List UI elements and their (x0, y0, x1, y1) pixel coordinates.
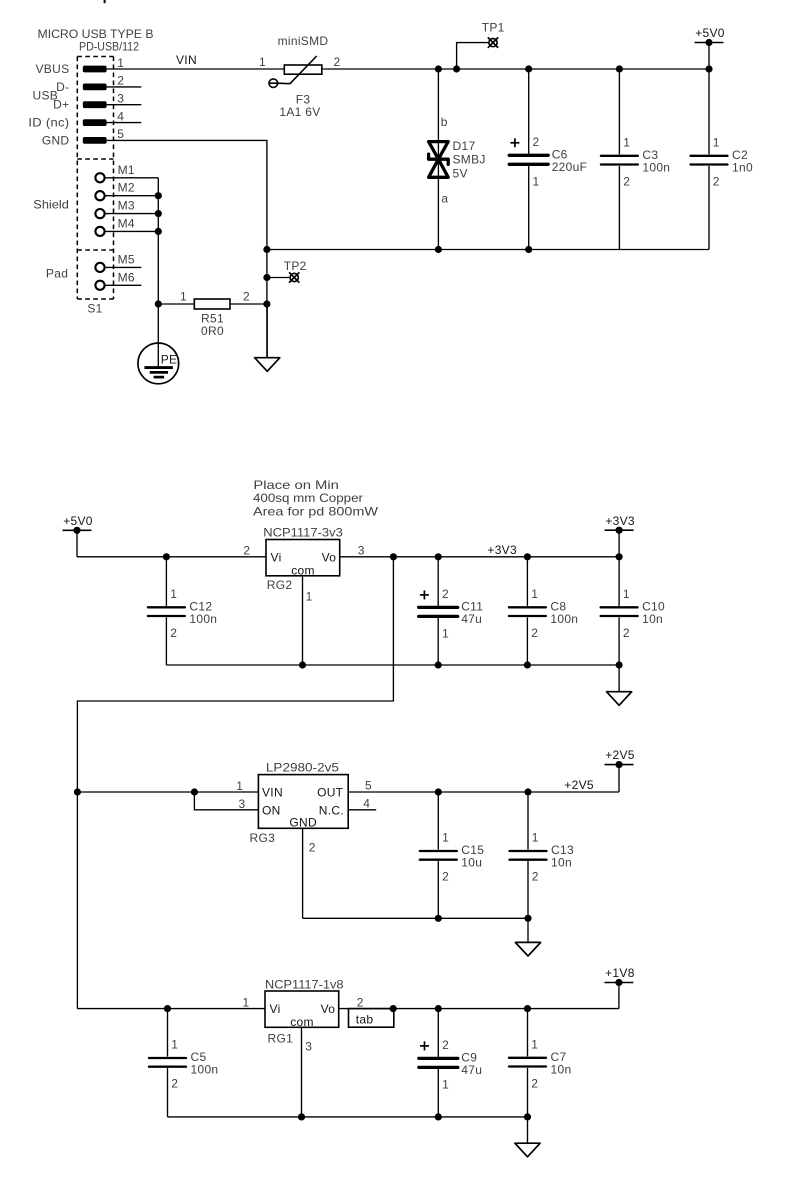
svg-text:1: 1 (170, 587, 177, 601)
earth ground PE symbol (138, 343, 179, 384)
capacitor C9 plates (419, 1057, 458, 1060)
svg-text:1: 1 (442, 1077, 449, 1091)
junction shield net at M4 (155, 228, 162, 235)
capacitor C6 top pin wire (528, 69, 530, 154)
ground symbol 1V8 section ground triangle (515, 1143, 540, 1157)
svg-text:+5V0: +5V0 (63, 514, 93, 528)
svg-text:2: 2 (533, 135, 540, 149)
wire M3 to shield net (105, 213, 159, 215)
power symbol +5V0 bar (695, 42, 724, 44)
fuse F3 trip indicator circle (269, 79, 278, 88)
capacitor C12 plates (148, 606, 185, 608)
svg-text:a: a (441, 192, 448, 206)
wire RG3 ON pin (194, 792, 258, 810)
junction +5V0 rail at C6 (525, 65, 532, 72)
wire M1 to shield net (105, 177, 159, 179)
junction +3V3 net at C8 (524, 553, 531, 560)
svg-text:PD-USB/112: PD-USB/112 (79, 40, 139, 54)
wire TP1 to +5V0 rail (457, 43, 489, 69)
svg-text:3: 3 (117, 92, 124, 106)
note text Place on Min 400sq mm Copper Area for pd 800mW (253, 478, 379, 518)
svg-text:1: 1 (713, 136, 720, 150)
junction ground rail at RG2 com (299, 661, 306, 668)
connector S1 mounting pin M5 circle (95, 263, 104, 272)
junction +1V8 net at C9 (435, 1005, 442, 1012)
svg-text:M4: M4 (118, 216, 135, 230)
svg-text:1: 1 (117, 56, 124, 70)
svg-text:2: 2 (531, 626, 538, 640)
svg-text:100n: 100n (642, 161, 670, 175)
power symbol +5V0 stem wire (76, 530, 78, 557)
junction +3V3 net at feed tap (390, 553, 397, 560)
capacitor C11 top pin wire (437, 557, 439, 606)
diode D17 bidirectional TVS symbol (429, 142, 449, 178)
regulator RG1 body (265, 991, 339, 1027)
junction RG1 input at C5 (164, 1005, 171, 1012)
ground symbol 1V8 section ground stem wire (527, 1117, 529, 1143)
svg-text:M2: M2 (118, 181, 135, 195)
junction GND net at ground rail (263, 246, 270, 253)
power symbol +1V8 bar (604, 982, 633, 984)
svg-text:D-: D- (56, 80, 69, 94)
svg-text:10n: 10n (642, 612, 663, 626)
power symbol +3V3 junction dot (616, 527, 623, 534)
power symbol +5V0 stem wire (708, 43, 710, 70)
svg-text:GND: GND (289, 815, 317, 829)
junction RG3 VIN at ON tap (191, 788, 198, 795)
svg-text:+5V0: +5V0 (695, 26, 725, 40)
svg-text:1A1 6V: 1A1 6V (279, 105, 320, 119)
ground symbol 3V3 section ground stem wire (618, 665, 620, 692)
svg-text:1: 1 (533, 174, 540, 188)
resistor R51 body (194, 299, 230, 309)
svg-text:47u: 47u (461, 1063, 482, 1077)
svg-text:OUT: OUT (317, 786, 344, 800)
wire R51 pin 2 to GND net (230, 303, 267, 305)
wire RG1 Vo to +1V8 net (339, 1008, 619, 1010)
svg-text:USB: USB (33, 89, 59, 103)
svg-text:1: 1 (171, 1038, 178, 1052)
junction +5V0 rail at TP1 (453, 65, 460, 72)
capacitor C7 top pin wire (527, 1009, 529, 1057)
power symbol +3V3 stem wire (618, 530, 620, 557)
capacitor C9 top pin wire (437, 1009, 439, 1057)
wire feed to RG1 Vi (77, 1008, 265, 1010)
ground symbol USB section ground stem wire (266, 304, 268, 358)
capacitor C7 bottom pin wire (527, 1068, 529, 1117)
svg-text:+2V5: +2V5 (564, 778, 594, 792)
wire M6 stub (105, 284, 142, 286)
ground rail 1V8 section (168, 1116, 528, 1118)
capacitor C6 plates (509, 154, 548, 157)
cropped wire stub at top edge of sheet (104, 0, 106, 3)
svg-text:2: 2 (623, 626, 630, 640)
connector S1 mounting pin M2 circle (95, 191, 104, 200)
svg-text:M6: M6 (118, 270, 135, 284)
capacitor C5 bottom pin wire (167, 1068, 169, 1117)
capacitor C12 top pin wire (165, 557, 167, 606)
svg-text:+3V3: +3V3 (605, 514, 635, 528)
junction shield net at M3 (155, 210, 162, 217)
svg-text:+1V8: +1V8 (605, 966, 635, 980)
svg-text:Place on Min: Place on Min (253, 478, 339, 492)
ground rail 2V5 section (303, 917, 528, 919)
svg-text:3: 3 (358, 544, 365, 558)
wire RG3 OUT to +2V5 net (348, 791, 619, 793)
connector S1 pin 5 pad (83, 137, 107, 144)
svg-text:S1: S1 (87, 301, 102, 315)
capacitor C7 plates (509, 1057, 546, 1059)
svg-text:2: 2 (531, 1077, 538, 1091)
wire pin 4 stub (107, 122, 142, 124)
power symbol +1V8 junction dot (615, 979, 622, 986)
ground rail top section (267, 249, 709, 251)
svg-text:1: 1 (236, 779, 243, 793)
svg-text:Area for pd 800mW: Area for pd 800mW (253, 504, 379, 518)
capacitor C10 bottom pin wire (618, 617, 620, 665)
regulator RG3 body (258, 775, 348, 829)
wire RG3 GND to ground rail (302, 828, 304, 918)
svg-text:5: 5 (117, 127, 124, 141)
capacitor C6 bottom pin wire (528, 166, 530, 250)
power symbol +1V8 stem wire (618, 983, 620, 1009)
svg-text:ID (nc): ID (nc) (28, 116, 69, 130)
wire M2 to shield net (105, 195, 159, 197)
svg-text:b: b (441, 115, 448, 129)
capacitor C15 top pin wire (437, 792, 439, 850)
svg-text:100n: 100n (191, 1063, 219, 1077)
svg-text:2: 2 (171, 1077, 178, 1091)
connector S1 dashed body outline (77, 57, 113, 300)
wire shield net to R51 pin 1 (158, 303, 194, 305)
wire RG2 com to ground rail (302, 576, 304, 665)
junction +3V3 net at C10 (616, 553, 623, 560)
svg-text:2: 2 (442, 870, 449, 884)
wire RG2 Vo to +3V3 net (340, 556, 619, 558)
wire TP2 stub (267, 277, 289, 279)
power symbol +2V5 bar (605, 764, 634, 766)
capacitor C9 plus sign (420, 1045, 429, 1047)
junction ground rail at RG1 com (298, 1113, 305, 1120)
junction +5V0 rail at C2 (705, 65, 712, 72)
svg-text:1: 1 (623, 136, 630, 150)
junction GND net at TP2 (263, 274, 270, 281)
junction shield net at M2 (155, 192, 162, 199)
svg-text:10n: 10n (551, 856, 572, 870)
capacitor C9 bottom pin wire (437, 1069, 439, 1117)
svg-text:TP2: TP2 (284, 259, 307, 273)
wire VBUS pin1 to fuse F3 (107, 68, 285, 70)
wire RG3 N.C. stub (348, 809, 376, 811)
regulator RG1 tab pad box (349, 1009, 394, 1028)
svg-text:10u: 10u (461, 856, 482, 870)
junction ground rail at C13 (524, 915, 531, 922)
svg-text:2: 2 (309, 840, 316, 854)
capacitor C3 top pin wire (618, 69, 620, 154)
capacitor C11 bottom pin wire (437, 618, 439, 665)
wire D17 anode a to ground rail (437, 159, 439, 250)
capacitor C15 plates (420, 850, 457, 852)
svg-text:2: 2 (532, 870, 539, 884)
svg-text:PE: PE (161, 353, 178, 367)
svg-text:D17: D17 (453, 139, 476, 153)
connector S1 mounting pin M6 circle (95, 281, 104, 290)
junction +5V0 rail at D17 (435, 65, 442, 72)
svg-text:VIN: VIN (262, 786, 283, 800)
svg-text:Shield: Shield (33, 198, 69, 212)
connector S1 mounting pin M3 circle (95, 209, 104, 218)
power symbol +2V5 junction dot (615, 761, 622, 768)
svg-text:1: 1 (623, 587, 630, 601)
svg-text:com: com (290, 1015, 314, 1029)
svg-text:1: 1 (442, 626, 449, 640)
svg-text:0R0: 0R0 (201, 324, 224, 338)
capacitor C2 bottom pin wire (708, 166, 710, 250)
svg-text:NCP1117-3v3: NCP1117-3v3 (263, 526, 343, 540)
regulator RG2 body (266, 540, 340, 576)
svg-text:Pad: Pad (46, 267, 68, 281)
fuse F3 body (284, 65, 322, 74)
junction ground rail at C9 (435, 1113, 442, 1120)
svg-text:Vi: Vi (270, 1002, 281, 1016)
svg-text:1: 1 (243, 995, 250, 1009)
svg-text:Vo: Vo (321, 1002, 336, 1016)
svg-text:2: 2 (117, 74, 124, 88)
junction ground rail at D17 (435, 246, 442, 253)
wire fuse F3 to +5V0 rail (322, 68, 709, 70)
power symbol +5V0 junction dot (73, 527, 80, 534)
svg-text:1: 1 (442, 831, 449, 845)
svg-text:GND: GND (42, 133, 70, 147)
junction +5V0 rail at C3 (616, 65, 623, 72)
wire shield net vertical (157, 178, 159, 304)
wire M4 to shield net (105, 230, 159, 232)
capacitor C12 bottom pin wire (165, 617, 167, 665)
svg-text:1: 1 (532, 831, 539, 845)
svg-text:tab: tab (356, 1013, 374, 1027)
junction ground rail at C8 (524, 661, 531, 668)
connector S1 pin 2 pad (83, 84, 107, 91)
capacitor C15 bottom pin wire (437, 861, 439, 918)
svg-text:100n: 100n (189, 612, 217, 626)
svg-text:1n0: 1n0 (732, 161, 753, 175)
capacitor C11 plates (419, 606, 458, 609)
test point TP1 symbol (488, 37, 498, 47)
capacitor C6 plus sign (510, 142, 519, 144)
capacitor C8 top pin wire (526, 557, 528, 606)
svg-text:TP1: TP1 (482, 21, 505, 35)
wire pin 3 stub (107, 104, 142, 106)
svg-text:400sq mm Copper: 400sq mm Copper (253, 491, 363, 505)
junction ground rail at C10 (616, 661, 623, 668)
connector S1 mounting pin M1 circle (95, 173, 104, 182)
test point TP2 symbol (289, 272, 299, 282)
svg-text:5V: 5V (453, 167, 468, 181)
junction +1V8 net at tab (390, 1005, 397, 1012)
svg-text:220uF: 220uF (552, 160, 588, 174)
svg-text:2: 2 (334, 55, 341, 69)
junction shield net at R51 pin 1 (155, 300, 162, 307)
svg-text:4: 4 (117, 109, 124, 123)
capacitor C11 plus sign (420, 594, 429, 596)
capacitor C13 top pin wire (527, 792, 529, 850)
svg-text:1: 1 (180, 290, 187, 304)
svg-text:2: 2 (243, 290, 250, 304)
svg-text:RG3: RG3 (250, 831, 276, 845)
connector S1 pin 4 pad (83, 119, 107, 126)
wire M5 stub (105, 266, 142, 268)
connector S1 pin 1 pad (83, 66, 107, 73)
svg-text:ON: ON (262, 804, 281, 818)
capacitor C5 plates (149, 1057, 186, 1059)
wire RG1 com to ground rail (301, 1027, 303, 1117)
earth ground PE stem wire (157, 304, 159, 368)
wire +5V0 to RG2 Vi (77, 556, 266, 558)
svg-text:M5: M5 (118, 252, 135, 266)
svg-text:2: 2 (623, 175, 630, 189)
wire GND pin 5 down to ground (107, 140, 267, 357)
svg-text:1: 1 (531, 587, 538, 601)
connector S1 pin 3 pad (83, 101, 107, 108)
svg-text:2: 2 (170, 626, 177, 640)
ground symbol 2V5 section ground stem wire (527, 918, 529, 942)
svg-text:2: 2 (243, 544, 250, 558)
svg-text:Vo: Vo (322, 551, 337, 565)
wire feed to RG3 VIN (77, 791, 258, 793)
junction ground rail at C6 (525, 246, 532, 253)
capacitor C13 plates (510, 850, 547, 852)
svg-text:+3V3: +3V3 (487, 543, 517, 557)
wire pin 2 stub (107, 86, 142, 88)
junction +1V8 net at C7 (524, 1005, 531, 1012)
capacitor C5 top pin wire (167, 1009, 169, 1057)
junction ground rail at C7 (524, 1113, 531, 1120)
capacitor C3 bottom pin wire (618, 166, 620, 250)
capacitor C10 top pin wire (618, 557, 620, 606)
svg-text:1: 1 (306, 590, 313, 604)
svg-text:100n: 100n (550, 612, 578, 626)
power symbol +2V5 stem wire (618, 765, 620, 792)
junction +2V5 net at C13 (524, 788, 531, 795)
svg-text:VIN: VIN (176, 53, 197, 67)
svg-text:2: 2 (713, 175, 720, 189)
svg-text:1: 1 (259, 55, 266, 69)
svg-text:+2V5: +2V5 (605, 748, 635, 762)
capacitor C3 plates (601, 155, 638, 157)
svg-text:LP2980-2v5: LP2980-2v5 (266, 761, 339, 775)
svg-text:5: 5 (365, 779, 372, 793)
ground symbol 3V3 section ground triangle (607, 692, 632, 706)
svg-text:47u: 47u (461, 612, 482, 626)
power symbol +3V3 bar (605, 529, 634, 531)
svg-text:Vi: Vi (271, 551, 282, 565)
svg-text:3: 3 (305, 1039, 312, 1053)
svg-text:2: 2 (442, 587, 449, 601)
svg-text:com: com (291, 563, 315, 577)
ground symbol USB section ground triangle (255, 358, 280, 372)
fuse F3 diagonal stroke (290, 56, 317, 84)
capacitor C10 plates (601, 606, 638, 608)
svg-text:10n: 10n (551, 1063, 572, 1077)
svg-text:2: 2 (442, 1038, 449, 1052)
connector S1 mounting pin M4 circle (95, 227, 104, 236)
svg-text:RG2: RG2 (267, 578, 293, 592)
wire +3V3 feed to lower regulators (77, 557, 393, 1009)
svg-text:M3: M3 (118, 199, 135, 213)
svg-text:1: 1 (531, 1038, 538, 1052)
svg-text:NCP1117-1v8: NCP1117-1v8 (265, 978, 344, 992)
junction feed line at RG3 VIN (74, 788, 81, 795)
svg-text:SMBJ: SMBJ (453, 153, 486, 167)
junction ground rail at C11 (435, 661, 442, 668)
capacitor C2 plates (691, 155, 728, 157)
svg-text:4: 4 (363, 797, 370, 811)
capacitor C2 top pin wire (708, 69, 710, 154)
svg-text:VBUS: VBUS (36, 62, 70, 76)
ground symbol 2V5 section ground triangle (515, 942, 540, 956)
junction +2V5 net at C15 (435, 788, 442, 795)
capacitor C8 plates (509, 606, 546, 608)
svg-text:miniSMD: miniSMD (278, 34, 329, 48)
ground rail 3V3 section (166, 664, 619, 666)
junction ground rail at C15 (435, 915, 442, 922)
capacitor C8 bottom pin wire (526, 617, 528, 665)
junction +3V3 net at C11 (435, 553, 442, 560)
fuse F3 trip indicator lead (278, 82, 290, 85)
junction GND net at R51 (263, 300, 270, 307)
power symbol +5V0 bar (63, 529, 92, 531)
svg-text:3: 3 (239, 797, 246, 811)
svg-text:2: 2 (357, 995, 364, 1009)
power symbol +5V0 junction dot (705, 39, 712, 46)
svg-text:N.C.: N.C. (319, 804, 344, 818)
capacitor C13 bottom pin wire (527, 861, 529, 918)
svg-text:RG1: RG1 (268, 1031, 294, 1045)
svg-text:M1: M1 (118, 163, 135, 177)
wire +5V0 rail to D17 cathode b (437, 69, 439, 159)
junction RG2 input at C12 (163, 553, 170, 560)
